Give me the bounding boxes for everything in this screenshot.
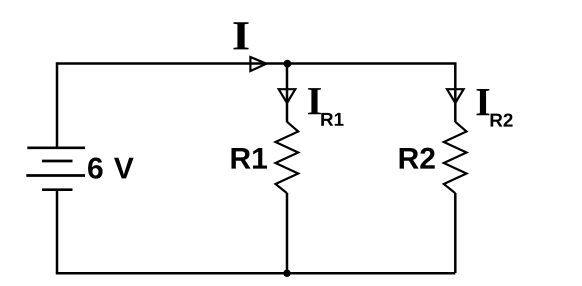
label: R1 subscript of I_R1: [321, 113, 333, 126]
battery B1 plate: bottom short (-): [42, 188, 73, 191]
label: R2 subscript of I_R2: [491, 114, 503, 127]
label: 6 V battery value: [88, 157, 103, 178]
wire: middle branch upper (node A to R1): [286, 64, 289, 123]
label: current I: [233, 22, 248, 49]
node B: bottom junction dot: [283, 270, 290, 277]
arrow: current I_R1 (open triangle pointing down): [279, 89, 296, 103]
battery B1 plate: lower long (+): [26, 174, 85, 177]
wire: top horizontal from battery to node A and R2 branch: [57, 62, 455, 65]
label: R1: [232, 148, 251, 169]
wire: middle branch lower (R1 to node B): [286, 193, 289, 273]
wire: left vertical upper (battery + to top wire): [56, 62, 59, 148]
label: I_R1 current: [308, 88, 321, 114]
resistor R1 zigzag: [276, 122, 299, 193]
wire: right branch upper (top wire to R2): [454, 62, 457, 122]
arrow: current I_R2 (open triangle pointing down): [447, 89, 464, 103]
battery B1 plate: top long (+): [27, 146, 85, 149]
wire: bottom horizontal return wire: [56, 272, 456, 275]
node A: top junction dot: [284, 60, 292, 68]
label: R2: [400, 148, 419, 169]
resistor R2 zigzag: [444, 122, 467, 193]
label: I_R2 current: [477, 89, 490, 115]
battery B1 plate: upper short (-): [42, 160, 73, 163]
wire: left vertical lower (battery - to bottom wire): [56, 190, 59, 273]
arrow: current I direction (open triangle on top wire): [250, 57, 266, 71]
wire: right branch lower (R2 to bottom wire): [454, 193, 457, 273]
